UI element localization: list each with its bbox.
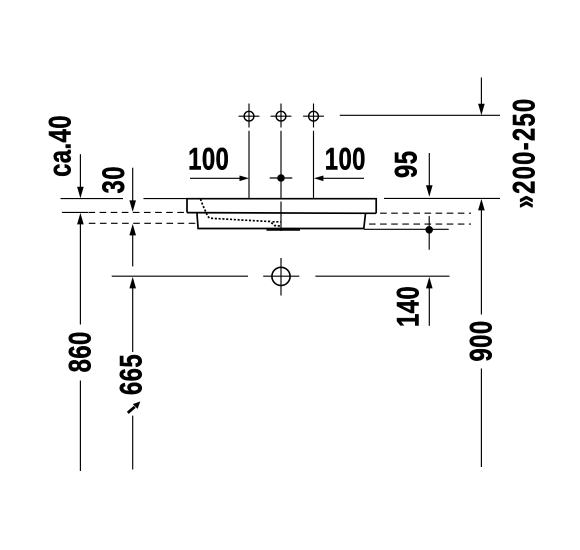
100 right dimension arrow shaft [324, 177, 365, 179]
tap hole 3 crosshair horizontal [303, 115, 324, 117]
basin rim profile [187, 199, 376, 214]
30 dimension arrow shaft up / drop line [132, 234, 134, 266]
svg-text:860: 860 [62, 331, 97, 372]
95 arrowhead down [426, 185, 433, 197]
tap hole 1 crosshair horizontal [239, 115, 260, 117]
countertop bottom line solid left end [62, 211, 88, 213]
860 dimension line lower part [79, 381, 81, 472]
centre line inside basin [280, 202, 282, 232]
drain flange thick segment [267, 229, 301, 231]
svg-text:900: 900 [463, 320, 498, 361]
drain circle [272, 267, 290, 285]
tap hole 1 crosshair vertical [248, 104, 250, 128]
countertop bottom dashed line right [369, 212, 471, 214]
30 arrowhead up [129, 224, 136, 236]
200-250 arrowhead down [478, 104, 485, 116]
30 arrowhead down [129, 200, 136, 212]
100 left arrowhead right [240, 176, 250, 182]
140 arrowhead up [426, 277, 433, 289]
900 dimension line lower part [480, 369, 482, 468]
centre reference dot on tap axis [277, 174, 285, 182]
ca.40 dimension arrow shaft down [79, 154, 81, 188]
basin outline [187, 199, 376, 229]
svg-text:140: 140 [391, 286, 426, 327]
svg-text:30: 30 [96, 166, 131, 193]
95 dimension arrow shaft down [428, 153, 430, 187]
drain level horizontal line right segment [315, 275, 449, 277]
countertop top level line right of basin [384, 197, 500, 199]
svg-text:100: 100 [188, 141, 229, 176]
waste outlet dot stem line [428, 216, 430, 250]
665 dimension line lower part [132, 416, 134, 470]
svg-text:95: 95 [388, 151, 423, 178]
200-250 dimension arrow shaft down [480, 78, 482, 106]
100 right arrowhead left [314, 176, 324, 182]
665 floor arrow glyph pointing north-east [133, 401, 141, 409]
svg-text:ca.40: ca.40 [42, 115, 77, 177]
tap hole circle 2 [276, 111, 286, 121]
drain level horizontal line left segment [112, 275, 248, 277]
140 dimension line below arrow [428, 287, 430, 326]
665 arrowhead up [129, 277, 136, 289]
860 arrowhead up [77, 213, 84, 225]
665 dimension line upper part [132, 287, 134, 352]
svg-text:100: 100 [325, 141, 366, 176]
900 dimension line upper part [480, 210, 482, 315]
tap hole circle 1 [244, 111, 254, 121]
centre reference dot crosshair horizontal [270, 177, 293, 179]
basin lower body profile [197, 213, 366, 229]
countertop bottom dashed line left [89, 211, 187, 213]
tap hole 2 axis line down to rim [280, 131, 282, 198]
tap hole 3 axis line down to rim [313, 131, 315, 198]
100 left dimension arrow shaft [190, 177, 240, 179]
tap hole level line extending right [340, 114, 500, 116]
tap hole circle 3 [309, 111, 319, 121]
svg-text:»200-250: »200-250 [506, 98, 541, 209]
tap hole 1 axis line down to rim [248, 131, 250, 198]
drain circle crosshair horizontal [263, 275, 299, 277]
ca.40 arrowhead down [77, 187, 84, 199]
tap hole 2 crosshair vertical [280, 104, 282, 128]
lower dashed reference line right [369, 223, 471, 225]
countertop top line left segment A [61, 198, 124, 200]
tap hole 2 crosshair horizontal [271, 115, 292, 117]
waste outlet reference dot [425, 226, 433, 234]
basin rim bottom line [187, 212, 376, 215]
svg-text:665: 665 [113, 354, 148, 395]
lower dashed reference line left [89, 222, 196, 224]
tap hole 3 crosshair vertical [313, 104, 315, 128]
900 arrowhead up [478, 199, 485, 211]
basin bottom extension line to waste dot [364, 228, 449, 230]
drain circle crosshair vertical [280, 258, 282, 296]
hidden bowl contour dotted [201, 199, 282, 226]
860 dimension line upper part [79, 223, 81, 325]
30 dimension arrow shaft down [132, 168, 134, 202]
countertop top line left segment B [144, 198, 188, 200]
hidden drain stub dotted [273, 221, 282, 223]
